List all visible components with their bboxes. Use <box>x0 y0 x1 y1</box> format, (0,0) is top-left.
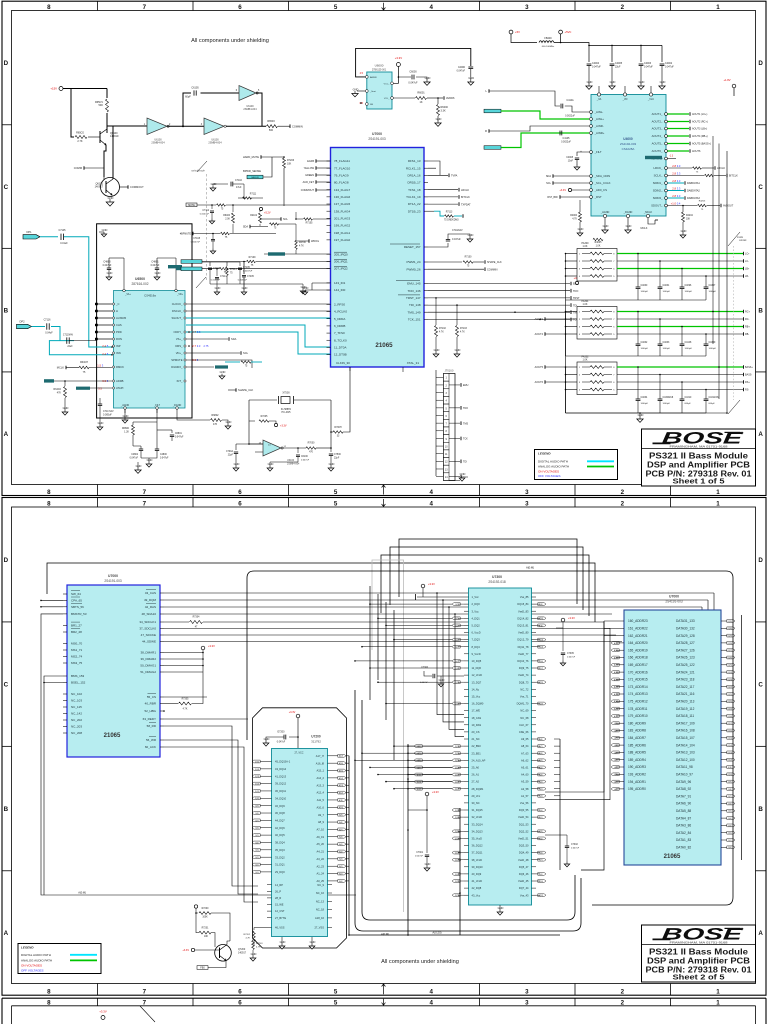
svg-text:D(0): D(0) <box>539 810 543 812</box>
svg-text:80_FLAG8: 80_FLAG8 <box>334 181 349 185</box>
svg-text:SW_64: SW_64 <box>71 592 81 596</box>
svg-text:27_BYTE: 27_BYTE <box>275 916 286 920</box>
svg-text:45_DQ15A-1: 45_DQ15A-1 <box>275 760 291 764</box>
svg-text:AVDD6: AVDD6 <box>446 96 455 100</box>
svg-text:3: 3 <box>525 500 529 507</box>
svg-text:26_P: 26_P <box>275 889 281 893</box>
svg-text:R7203: R7203 <box>256 943 263 945</box>
svg-text:50_DMAG1: 50_DMAG1 <box>140 664 156 668</box>
svg-text:+3.3V: +3.3V <box>428 582 435 586</box>
svg-text:_VD+: _VD+ <box>176 293 184 296</box>
svg-text:24_A10_AP: 24_A10_AP <box>472 758 486 762</box>
svg-text:12_VccD: 12_VccD <box>472 673 483 677</box>
ground at network return <box>637 412 644 422</box>
feedback wire and capacitor C6105 60pF <box>183 87 239 127</box>
svg-text:6: 6 <box>238 489 242 496</box>
ground stub bottom left <box>135 462 142 473</box>
svg-text:COMMOUT: COMMOUT <box>130 185 144 189</box>
svg-text:A(5): A(5) <box>539 759 543 762</box>
svg-text:TDI: TDI <box>573 304 577 307</box>
svg-text:_VA+: _VA+ <box>124 293 131 296</box>
svg-text:A(7): A(7) <box>614 737 618 740</box>
svg-text:SGOUT_: SGOUT_ <box>171 316 183 320</box>
svg-text:Vss_71: Vss_71 <box>520 695 529 699</box>
svg-text:DQ15_84: DQ15_84 <box>517 602 529 606</box>
svg-text:D(7): D(7) <box>728 796 732 798</box>
svg-text:A(10): A(10) <box>339 806 344 809</box>
svg-text:DATA22_117: DATA22_117 <box>676 685 695 689</box>
svg-text:0.047uF: 0.047uF <box>408 82 418 85</box>
svg-text:DATA23_118: DATA23_118 <box>676 678 695 682</box>
svg-text:D(6): D(6) <box>255 828 259 830</box>
capacitor C4000 0.047uF <box>457 66 475 85</box>
svg-text:D(5): D(5) <box>728 811 732 813</box>
svg-text:C4008: C4008 <box>566 157 573 159</box>
svg-text:B: B <box>758 806 763 813</box>
svg-text:1: 1 <box>716 489 720 496</box>
svg-text:190_ADDR3: 190_ADDR3 <box>628 765 646 769</box>
svg-text:LC+: LC+ <box>745 253 750 256</box>
svg-text:C4096: C4096 <box>685 285 692 287</box>
svg-text:C4063: C4063 <box>663 342 670 344</box>
connector JT01U0 JTAG header <box>436 370 469 481</box>
svg-text:SDA: SDA <box>546 175 551 178</box>
cap C7303 right of U7300 <box>545 835 580 867</box>
svg-text:TDI_148: TDI_148 <box>409 303 421 307</box>
svg-text:79_FLAG9: 79_FLAG9 <box>334 173 349 177</box>
svg-text:_DGND: _DGND <box>623 211 633 214</box>
svg-text:A(9): A(9) <box>614 722 618 725</box>
svg-text:46_VSS: 46_VSS <box>275 926 285 930</box>
svg-text:3.3: 3.3 <box>197 330 201 334</box>
svg-text:4.7K: 4.7K <box>439 332 444 334</box>
svg-text:NC_115: NC_115 <box>71 705 82 709</box>
svg-text:A(3): A(3) <box>339 858 343 861</box>
svg-text:D(24): D(24) <box>728 672 733 674</box>
svg-text:D(3): D(3) <box>539 831 543 833</box>
svg-text:TXPDAT: TXPDAT <box>461 203 471 206</box>
svg-text:D: D <box>4 60 9 67</box>
svg-text:DQ0_55: DQ0_55 <box>519 808 529 812</box>
resistor R4700 4.7K and WDOG <box>295 239 319 254</box>
svg-text:1000pF: 1000pF <box>663 291 671 293</box>
svg-text:+3.3V: +3.3V <box>280 425 287 428</box>
svg-text:R4700: R4700 <box>299 242 306 244</box>
svg-text:0.047uF: 0.047uF <box>175 437 184 439</box>
svg-text:4.7K: 4.7K <box>246 937 251 939</box>
svg-text:RCLK1_15: RCLK1_15 <box>406 166 421 170</box>
svg-text:U7000: U7000 <box>108 574 118 578</box>
svg-text:C6100: C6100 <box>301 456 308 458</box>
resistor R64C0 47K to ground on ADDB row <box>44 379 112 415</box>
svg-text:A(5): A(5) <box>614 751 618 754</box>
svg-text:GND: GND <box>587 80 593 84</box>
svg-text:CLKIN_30: CLKIN_30 <box>336 361 350 365</box>
svg-text:GND: GND <box>468 233 474 237</box>
U7300 right pin flags <box>536 603 546 897</box>
svg-text:0.005uF: 0.005uF <box>103 414 112 417</box>
U7300 left pin flags <box>452 603 464 897</box>
svg-text:A(12): A(12) <box>339 792 344 795</box>
svg-text:A(5): A(5) <box>339 843 343 846</box>
svg-text:A(15): A(15) <box>614 678 619 681</box>
svg-text:20_CS: 20_CS <box>472 730 480 734</box>
resistor R7205 100 <box>259 416 287 428</box>
svg-text:CKE_66: CKE_66 <box>519 730 529 734</box>
svg-text:2S4191-003: 2S4191-003 <box>104 579 122 583</box>
svg-text:44_SDWE: 44_SDWE <box>142 640 156 644</box>
svg-text:R7103: R7103 <box>460 328 467 330</box>
svg-text:1: 1 <box>716 1000 720 1007</box>
svg-text:C7108: C7108 <box>193 238 200 240</box>
filter network below U6500: R6800 1.2K <box>122 409 157 446</box>
svg-text:MS2_74: MS2_74 <box>71 655 83 659</box>
svg-text:D(26): D(26) <box>728 657 733 659</box>
wires to ID pins <box>302 283 330 295</box>
svg-text:A: A <box>4 431 9 438</box>
page 3 sheet (partial) <box>2 998 766 1024</box>
overbar marks on U7000 pins <box>334 244 420 295</box>
svg-text:DATA4_87: DATA4_87 <box>676 816 691 820</box>
svg-text:GND: GND <box>329 462 335 466</box>
svg-text:A(3): A(3) <box>539 773 543 776</box>
svg-text:_C: _C <box>115 302 119 306</box>
resistor R6802 476 and ground <box>177 413 232 429</box>
red +3.3V near EMU <box>574 276 581 285</box>
svg-text:C4802: C4802 <box>131 454 138 456</box>
svg-text:SPMUTE: SPMUTE <box>171 358 182 362</box>
IC U4000 CS4228A codec <box>590 86 668 218</box>
svg-text:A(8): A(8) <box>614 729 618 732</box>
svg-text:AOUT4_: AOUT4_ <box>652 134 663 138</box>
wire HARD_MUTE net vertical <box>284 157 316 190</box>
row 3 wire with R7404 <box>180 232 276 239</box>
svg-text:AOUT3 (LB+): AOUT3 (LB+) <box>692 128 707 131</box>
svg-text:A(14): A(14) <box>339 777 344 780</box>
svg-text:A3_59: A3_59 <box>521 780 529 784</box>
svg-text:1000pF: 1000pF <box>685 348 693 350</box>
svg-text:29_Vcc: 29_Vcc <box>472 794 481 798</box>
middle vertical bus lines <box>370 586 394 760</box>
svg-text:A(17): A(17) <box>614 664 619 667</box>
svg-text:GND: GND <box>434 348 440 352</box>
svg-text:R7205: R7205 <box>261 416 268 418</box>
svg-text:BITCLK: BITCLK <box>729 175 738 178</box>
svg-text:C4062: C4062 <box>641 342 648 344</box>
svg-text:5: 5 <box>334 500 338 507</box>
bypass caps row above U4000 <box>586 62 675 89</box>
svg-text:LEGEND: LEGEND <box>538 452 551 456</box>
connector DP1 <box>23 230 40 239</box>
U7200 bottom resistor and grounds <box>244 928 316 949</box>
svg-text:SCL: SCL <box>546 182 551 185</box>
svg-text:A15_1: A15_1 <box>316 769 324 773</box>
svg-text:2: 2 <box>621 489 625 496</box>
svg-text:_AD0_CS: _AD0_CS <box>594 188 608 192</box>
svg-text:+5V: +5V <box>515 30 520 34</box>
svg-text:3.3: 3.3 <box>677 179 681 183</box>
svg-text:R7111: R7111 <box>250 194 257 196</box>
svg-text:Sheet 2 of 5: Sheet 2 of 5 <box>673 974 725 981</box>
svg-text:500: 500 <box>269 129 274 132</box>
svg-text:D(9): D(9) <box>728 782 732 784</box>
svg-text:DATA27_126: DATA27_126 <box>676 648 695 652</box>
svg-text:28_R: 28_R <box>275 896 281 900</box>
svg-text:14_RP: 14_RP <box>275 883 283 887</box>
svg-text:A6_62: A6_62 <box>521 758 529 762</box>
svg-text:PWM0_26: PWM0_26 <box>406 267 420 271</box>
svg-text:3.3: 3.3 <box>677 171 681 175</box>
svg-text:12_CST: 12_CST <box>275 909 285 913</box>
svg-text:143_ID1: 143_ID1 <box>334 281 346 285</box>
svg-text:VS+_: VS+_ <box>176 337 183 341</box>
svg-text:21_NC: 21_NC <box>472 737 480 741</box>
svg-text:174_ADDR13: 174_ADDR13 <box>628 692 648 696</box>
svg-text:DIGITAL AUDIO PATH: DIGITAL AUDIO PATH <box>538 459 568 463</box>
wire Q6101 collector to op-amp U6100A input <box>107 126 147 179</box>
svg-text:10K: 10K <box>686 219 691 221</box>
svg-text:R4204: R4204 <box>686 215 693 217</box>
capacitor bank below PA301 <box>566 311 717 356</box>
svg-text:D(19): D(19) <box>539 682 544 684</box>
ground at U6000 left <box>352 87 366 97</box>
svg-text:D(13): D(13) <box>728 752 733 754</box>
svg-text:A(9): A(9) <box>339 814 343 817</box>
svg-text:0.0047uF: 0.0047uF <box>191 242 201 244</box>
svg-text:TVPA: TVPA <box>451 175 458 178</box>
svg-text:DQ9_75: DQ9_75 <box>519 666 529 670</box>
svg-text:161_ADDR22: 161_ADDR22 <box>628 627 648 631</box>
svg-text:FB0: FB0 <box>200 967 205 970</box>
svg-text:R7304: R7304 <box>193 617 200 619</box>
svg-text:22_BS0: 22_BS0 <box>472 744 482 748</box>
svg-text:outside: outside <box>739 239 747 242</box>
svg-text:D(14): D(14) <box>728 745 733 747</box>
svg-text:U7000: U7000 <box>669 595 679 599</box>
svg-text:22pF: 22pF <box>228 455 234 457</box>
svg-text:1000pF: 1000pF <box>641 291 649 293</box>
svg-text:MS1_71: MS1_71 <box>71 648 83 652</box>
svg-text:D(31): D(31) <box>728 621 733 623</box>
svg-text:+3.3V: +3.3V <box>182 949 189 952</box>
svg-text:TDI: TDI <box>463 461 467 464</box>
svg-text:A(16): A(16) <box>339 762 344 765</box>
svg-text:_VLC: _VLC <box>647 98 654 101</box>
svg-text:GND: GND <box>136 464 142 468</box>
svg-text:DSCLK_: DSCLK_ <box>172 309 183 313</box>
svg-text:X7500: X7500 <box>282 392 290 395</box>
svg-text:RESET_157: RESET_157 <box>404 245 421 249</box>
svg-text:A16_I8: A16_I8 <box>316 761 325 765</box>
wire Q6100 emitter to Q6101 <box>104 145 106 177</box>
resistor pullup RBR 4.7K <box>163 672 203 712</box>
label AVDD6 <box>438 96 455 100</box>
svg-text:180_ADDR9: 180_ADDR9 <box>628 721 646 725</box>
busloop C bottom outer <box>355 690 581 931</box>
svg-text:C7112: C7112 <box>202 210 209 212</box>
svg-text:D(10): D(10) <box>539 618 544 620</box>
svg-text:D(10): D(10) <box>539 881 544 883</box>
svg-text:11_DQ6: 11_DQ6 <box>472 666 482 670</box>
svg-text:NC_103: NC_103 <box>71 699 82 703</box>
svg-text:55_CS: 55_CS <box>147 695 156 699</box>
label HARD_MUTE <box>243 155 284 159</box>
svg-text:A(6): A(6) <box>417 745 421 748</box>
svg-text:D: D <box>4 557 9 564</box>
input wires PA300 <box>565 253 577 277</box>
svg-text:43_DQ14: 43_DQ14 <box>275 767 287 771</box>
svg-text:+3.3V: +3.3V <box>559 189 566 192</box>
svg-text:C7305: C7305 <box>567 653 574 655</box>
svg-text:AVDOUT: AVDOUT <box>723 205 734 208</box>
resistor R7206 10K pullup <box>283 156 295 206</box>
svg-text:A18_16: A18_16 <box>315 916 325 920</box>
output wires PA302 to shield edge <box>617 365 753 392</box>
svg-text:173_ADDR14: 173_ADDR14 <box>628 685 648 689</box>
svg-text:5_DQ2: 5_DQ2 <box>472 624 481 628</box>
svg-text:A(6): A(6) <box>339 836 343 839</box>
svg-text:206_IRQ1: 206_IRQ1 <box>334 259 348 263</box>
svg-text:TDO: TDO <box>573 290 578 293</box>
svg-text:2SMB4-004: 2SMB4-004 <box>151 142 165 145</box>
svg-text:40_DQ5: 40_DQ5 <box>275 833 285 837</box>
svg-text:32_VccD: 32_VccD <box>472 815 483 819</box>
svg-text:VssD_51: VssD_51 <box>518 837 529 841</box>
svg-text:R7105: R7105 <box>306 223 313 225</box>
svg-text:TFS1_18: TFS1_18 <box>408 188 421 192</box>
svg-text:22pF: 22pF <box>334 458 340 460</box>
U7300 +3.3V top left <box>416 582 465 600</box>
svg-text:D(2): D(2) <box>728 833 732 835</box>
svg-text:7_DQ3: 7_DQ3 <box>472 638 481 642</box>
green AOUT wires right of U4000 <box>668 112 711 153</box>
resistor R2102 2.0K vertical with +5.2V <box>250 207 271 226</box>
svg-text:10K: 10K <box>287 163 292 166</box>
svg-text:600-100MHz: 600-100MHz <box>542 46 555 48</box>
svg-text:BASS-: BASS- <box>745 374 752 377</box>
svg-text:49_DQM: 49_DQM <box>144 598 157 602</box>
svg-text:D(10): D(10) <box>255 798 260 800</box>
svg-text:2.0K: 2.0K <box>225 219 230 221</box>
svg-text:TRST: TRST <box>573 297 580 300</box>
svg-text:22uF: 22uF <box>67 346 73 348</box>
power input +5V ferrite FB400 <box>509 30 662 62</box>
wire bus nested loop 3 <box>381 555 589 616</box>
svg-text:C430R/A8: C430R/A8 <box>663 396 674 399</box>
svg-text:311792: 311792 <box>311 740 321 744</box>
svg-text:CHS: CHS <box>116 323 122 327</box>
right U7000 address flags <box>581 621 619 870</box>
svg-text:SCLK_: SCLK_ <box>654 174 663 178</box>
svg-text:134_FLAG7: 134_FLAG7 <box>334 188 351 192</box>
svg-text:198_FLAG1: 198_FLAG1 <box>334 231 351 235</box>
svg-text:31_DQ1: 31_DQ1 <box>275 863 285 867</box>
svg-text:COMMIN: COMMIN <box>292 124 303 128</box>
voltage annotations U6500 left <box>98 344 113 391</box>
svg-text:GND: GND <box>460 472 466 476</box>
svg-text:63_REDY: 63_REDY <box>143 717 156 721</box>
svg-text:D(5): D(5) <box>255 835 259 837</box>
svg-text:44_DQ7: 44_DQ7 <box>275 818 285 822</box>
svg-text:D(12): D(12) <box>255 783 260 785</box>
svg-text:78_FLAG11: 78_FLAG11 <box>334 159 350 163</box>
svg-text:183_ADDR8: 183_ADDR8 <box>628 729 646 733</box>
resistor network PA300 <box>577 242 617 281</box>
svg-text:B: B <box>4 307 9 314</box>
svg-text:52_HBG: 52_HBG <box>144 709 156 713</box>
svg-text:14_Nc: 14_Nc <box>472 687 480 691</box>
svg-text:MCLK: MCLK <box>641 227 648 230</box>
svg-text:GND: GND <box>436 117 442 121</box>
capacitor C7114 0.0047uF <box>211 268 228 295</box>
svg-text:TRST_147: TRST_147 <box>406 296 421 300</box>
U7200 power cap E7200 <box>263 711 300 748</box>
svg-text:DP1: DP1 <box>26 230 32 234</box>
svg-text:13_DQ7: 13_DQ7 <box>472 680 482 684</box>
capacitor C7108 0.0047uF <box>191 233 216 254</box>
svg-text:A2_23: A2_23 <box>316 864 324 868</box>
svg-text:DATA8_92: DATA8_92 <box>676 787 691 791</box>
svg-text:R2102: R2102 <box>250 215 257 217</box>
svg-text:BSEL_152: BSEL_152 <box>71 681 86 685</box>
svg-text:8: 8 <box>47 500 51 507</box>
svg-text:NC_142: NC_142 <box>71 712 82 716</box>
cluster C7103 R7114 C7105 right of U6500 <box>192 262 307 294</box>
svg-text:2SMB4-004: 2SMB4-004 <box>243 108 257 111</box>
svg-text:VssD_80: VssD_80 <box>518 631 529 635</box>
wire into U6000 <box>356 48 471 77</box>
memory control lines to SDRAM <box>164 593 714 614</box>
svg-text:C4311/NV: C4311/NV <box>709 397 720 399</box>
svg-text:1K: 1K <box>419 101 422 104</box>
svg-text:MUTE: MUTE <box>188 205 195 207</box>
svg-text:VssD_83: VssD_83 <box>518 609 529 613</box>
svg-text:VssD_77: VssD_77 <box>518 652 529 656</box>
svg-text:EMU_145: EMU_145 <box>407 282 421 286</box>
svg-text:39_DMAR2: 39_DMAR2 <box>140 657 156 661</box>
svg-text:162_ADDR21: 162_ADDR21 <box>628 634 648 638</box>
+3.3V base terminal <box>182 948 219 952</box>
svg-text:U6000: U6000 <box>375 64 384 68</box>
resistor R6400b 2.0K vertical <box>223 204 234 233</box>
capacitor bank below PA302 <box>566 366 720 413</box>
svg-text:GND: GND <box>626 224 632 228</box>
svg-text:AUD_FET: AUD_FET <box>303 181 315 184</box>
svg-text:30_DQ8: 30_DQ8 <box>275 811 285 815</box>
svg-text:GND: GND <box>498 906 504 910</box>
svg-text:6: 6 <box>238 4 242 11</box>
svg-text:0.047uF: 0.047uF <box>452 238 461 241</box>
svg-text:DATA7_91: DATA7_91 <box>676 794 691 798</box>
svg-text:D(16): D(16) <box>539 661 544 663</box>
svg-text:D(8): D(8) <box>728 789 732 791</box>
svg-text:BPWR_SENSE: BPWR_SENSE <box>243 169 261 173</box>
svg-text:3: 3 <box>525 489 529 496</box>
svg-text:138_FLAG4: 138_FLAG4 <box>334 209 351 213</box>
op-amp U6100D oscillator <box>259 440 300 465</box>
label SHAPE_CLK bottom <box>228 388 254 392</box>
svg-text:1000pF: 1000pF <box>709 348 717 350</box>
svg-text:0.047uF: 0.047uF <box>457 71 466 73</box>
shield boundary dashed line right <box>728 232 747 414</box>
labels SDA SCL near U6500 <box>186 337 252 368</box>
svg-text:RS-: RS- <box>745 389 749 392</box>
svg-text:TMS: TMS <box>463 422 468 425</box>
audio inputs L R with caps <box>484 89 589 149</box>
BOSE logo <box>653 925 745 945</box>
shield enclosure around U7200 <box>253 708 347 948</box>
svg-text:GND: GND <box>108 196 114 200</box>
